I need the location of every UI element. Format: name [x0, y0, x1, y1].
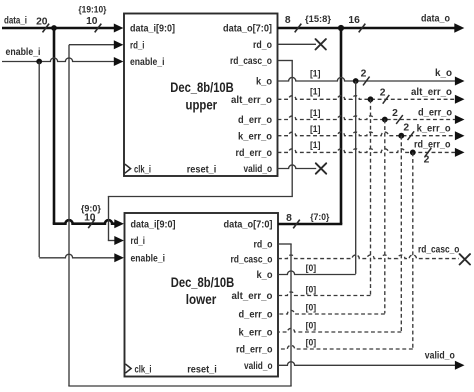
- wire alt_err vertical (dashed): [370, 99, 372, 295]
- arrow output alt_err_o: [455, 95, 465, 104]
- wire data_o bus vertical: [340, 28, 343, 224]
- decoder block U1 (Dec_8b/10B upper): [124, 14, 278, 177]
- svg-text:8: 8: [285, 15, 291, 26]
- svg-text:2: 2: [380, 88, 386, 99]
- wire U2 rd_o to loop: [278, 243, 292, 245]
- svg-text:valid_o: valid_o: [244, 164, 273, 175]
- wire data_i bus into U2 (hops over two verticals): [53, 220, 115, 224]
- wire rd_casc across (y=196.5): [108, 196, 293, 198]
- svg-text:rd_i: rd_i: [130, 40, 145, 51]
- svg-text:10: 10: [86, 16, 98, 27]
- node: enable junction: [36, 59, 42, 65]
- svg-text:reset_i: reset_i: [187, 165, 217, 176]
- wire U1 d_err_o (dashed, hops 4): [278, 116, 456, 120]
- wire U1 rd_casc_o stub: [278, 60, 293, 62]
- arrow output valid_o: [455, 361, 465, 370]
- wire U2 d_err_o (dashed, hop 1): [278, 310, 385, 314]
- svg-text:data_i: data_i: [4, 16, 27, 27]
- svg-text:rd_err_o: rd_err_o: [236, 148, 273, 159]
- wire k_err vertical (dashed): [400, 136, 402, 332]
- svg-text:valid_o: valid_o: [425, 350, 455, 361]
- svg-text:{7:0}: {7:0}: [310, 211, 329, 222]
- svg-text:16: 16: [348, 15, 360, 26]
- wire U2 alt_err_o (dashed, hop 1): [278, 292, 371, 296]
- svg-text:Dec_8b/10B: Dec_8b/10B: [171, 275, 235, 290]
- svg-text:rd_o: rd_o: [254, 240, 273, 251]
- wire U1 rd_o: [278, 43, 317, 45]
- svg-text:{9:0}: {9:0}: [81, 202, 101, 213]
- svg-text:[0]: [0]: [306, 263, 317, 274]
- svg-text:upper: upper: [186, 97, 218, 112]
- wire U1 rd_err_o (dashed, hops 6): [278, 149, 456, 153]
- svg-text:[1]: [1]: [310, 68, 321, 79]
- svg-text:rd_err_o: rd_err_o: [414, 139, 451, 150]
- arrow output data_o: [454, 23, 464, 33]
- svg-text:data_o[7:0]: data_o[7:0]: [224, 220, 273, 231]
- bus-width slash 16: [359, 24, 366, 33]
- bus-width slash 8 (lower): [293, 220, 300, 229]
- node: rd_err junction: [410, 150, 416, 156]
- bus-width slash 2 (d_err): [396, 115, 403, 124]
- no-connect X on U1 valid_o: [316, 163, 326, 173]
- arrow into U1 enable_i: [114, 57, 124, 66]
- svg-text:k_err_o: k_err_o: [417, 123, 451, 134]
- svg-text:enable_i: enable_i: [6, 47, 41, 58]
- wire enable_i into U1 (hops over data and rd verticals): [2, 58, 115, 62]
- node: alt_err junction: [368, 96, 374, 102]
- wire U1 alt_err_o (dashed, hops 3): [278, 96, 456, 100]
- svg-text:lower: lower: [186, 292, 217, 307]
- wire U1 data_o bus to output: [278, 27, 456, 30]
- U1 clock chevron: [125, 164, 131, 173]
- svg-text:alt_err_o: alt_err_o: [231, 95, 272, 106]
- wire U1 valid_o (hop 1): [278, 165, 317, 169]
- svg-text:Dec_8b/10B: Dec_8b/10B: [170, 80, 234, 95]
- U2 clock chevron: [125, 364, 131, 373]
- arrow into U2 enable_i: [114, 253, 124, 262]
- wire U2 rd_err_o (dashed, hop 1): [278, 345, 413, 349]
- wire into U2 rd_i: [108, 240, 115, 242]
- svg-text:alt_err_o: alt_err_o: [411, 87, 452, 98]
- svg-text:clk_i: clk_i: [135, 364, 152, 375]
- wire rd_casc vertical down: [291, 61, 293, 197]
- svg-text:d_err_o: d_err_o: [239, 310, 273, 321]
- svg-text:rd_casc_o: rd_casc_o: [231, 254, 273, 265]
- svg-text:[0]: [0]: [306, 338, 317, 349]
- decoder block U2 (Dec_8b/10B lower): [125, 213, 279, 377]
- svg-text:d_err_o: d_err_o: [238, 115, 272, 126]
- svg-text:rd_casc_o: rd_casc_o: [418, 244, 460, 255]
- svg-text:alt_err_o: alt_err_o: [232, 291, 273, 302]
- node: k_err junction: [398, 133, 404, 139]
- svg-text:enable_i: enable_i: [130, 57, 165, 68]
- svg-text:20: 20: [36, 16, 48, 27]
- wire rd_err vertical (dashed): [412, 152, 414, 348]
- arrow output d_err_o: [455, 115, 465, 124]
- svg-text:2: 2: [361, 68, 367, 79]
- svg-text:k_o: k_o: [256, 77, 272, 88]
- svg-text:2: 2: [424, 154, 430, 165]
- no-connect X on rd_casc_o: [460, 254, 470, 264]
- wire U2 rd_casc_o (dashed, hops 6): [278, 255, 459, 259]
- svg-text:k_o: k_o: [435, 68, 452, 79]
- wire down to U2 rd_i: [108, 197, 110, 241]
- svg-text:reset_i: reset_i: [187, 364, 217, 375]
- wire rd loop bottom: [68, 385, 291, 387]
- bus-width slash 2 (k_err): [408, 131, 415, 140]
- svg-text:rd_casc_o: rd_casc_o: [230, 56, 272, 67]
- wire U1 k_o to output (hops 2): [278, 77, 456, 81]
- svg-text:data_i[9:0]: data_i[9:0]: [130, 24, 175, 35]
- node: data_o junction: [338, 25, 344, 31]
- wire U1 rd_i from loop vertical: [69, 44, 115, 46]
- svg-text:{15:8}: {15:8}: [305, 13, 331, 24]
- node: d_err junction: [382, 117, 388, 123]
- wire rd loop vertical (left side): [68, 45, 70, 386]
- svg-text:rd_o: rd_o: [253, 40, 272, 51]
- arrow output k_o: [455, 77, 465, 86]
- bus-width slash 20: [43, 24, 50, 33]
- svg-text:data_o[7:0]: data_o[7:0]: [223, 24, 272, 35]
- svg-text:[0]: [0]: [306, 284, 317, 295]
- no-connect X on U1 rd_o: [316, 39, 326, 49]
- svg-text:rd_err_o: rd_err_o: [236, 345, 273, 356]
- bus-width slash 10 (lower): [88, 219, 95, 228]
- svg-text:{19:10}: {19:10}: [78, 3, 106, 14]
- arrow output rd_err_o: [455, 148, 465, 157]
- wire U2 k_err_o (dashed, hop 1): [278, 328, 401, 332]
- svg-text:[1]: [1]: [310, 140, 321, 151]
- wire d_err vertical (dashed): [384, 120, 386, 314]
- svg-text:valid_o: valid_o: [244, 361, 273, 372]
- svg-text:data_o: data_o: [421, 14, 450, 25]
- wire enable down to U2: [38, 62, 40, 258]
- svg-text:2: 2: [403, 123, 409, 134]
- svg-text:k_err_o: k_err_o: [238, 131, 272, 142]
- arrow into U2 data_i: [114, 219, 124, 228]
- bus-width slash 8 (upper): [295, 24, 302, 33]
- arrow output k_err_o: [455, 131, 465, 140]
- wire data_i bus (20-bit) into U1: [2, 27, 115, 30]
- wire U1 k_err_o (dashed, hops 5): [278, 132, 456, 136]
- arrow into U1 data_i: [114, 24, 124, 33]
- svg-text:d_err_o: d_err_o: [418, 108, 452, 119]
- svg-text:rd_i: rd_i: [131, 236, 146, 247]
- wire data_i bus down to U2: [53, 28, 56, 224]
- svg-text:[1]: [1]: [310, 124, 321, 135]
- bus-width slash 2 (rd_err): [425, 148, 432, 157]
- svg-text:k_o: k_o: [257, 270, 273, 281]
- svg-text:[0]: [0]: [306, 321, 317, 332]
- wire k vertical: [355, 81, 357, 274]
- svg-text:[1]: [1]: [310, 86, 321, 97]
- wire U2 k_o (hop 1): [278, 271, 356, 275]
- bus-width slash 2 (alt_err): [383, 95, 390, 104]
- svg-text:data_i[9:0]: data_i[9:0]: [131, 220, 176, 231]
- node: k_o junction: [353, 78, 359, 84]
- svg-text:[0]: [0]: [306, 303, 317, 314]
- bus-width slash 10 (upper): [95, 24, 102, 33]
- wire enable into U2 (hop over rd-loop vertical): [39, 254, 115, 258]
- svg-text:enable_i: enable_i: [131, 254, 166, 265]
- svg-text:8: 8: [286, 213, 292, 224]
- bus-width slash 2 (k_o): [363, 77, 370, 86]
- node: data_i junction: [51, 25, 57, 31]
- svg-text:10: 10: [84, 213, 96, 224]
- svg-text:k_err_o: k_err_o: [239, 328, 273, 339]
- wire U2 data_o bus: [278, 223, 342, 226]
- wire U2 valid_o (hop 1): [278, 362, 456, 366]
- wire rd loop vertical (right of U2): [290, 244, 292, 386]
- svg-text:clk_i: clk_i: [134, 165, 151, 176]
- svg-text:2: 2: [392, 108, 398, 119]
- arrow into U1 rd_i: [114, 40, 124, 49]
- arrow into U2 rd_i: [114, 236, 124, 245]
- svg-text:[1]: [1]: [310, 108, 321, 119]
